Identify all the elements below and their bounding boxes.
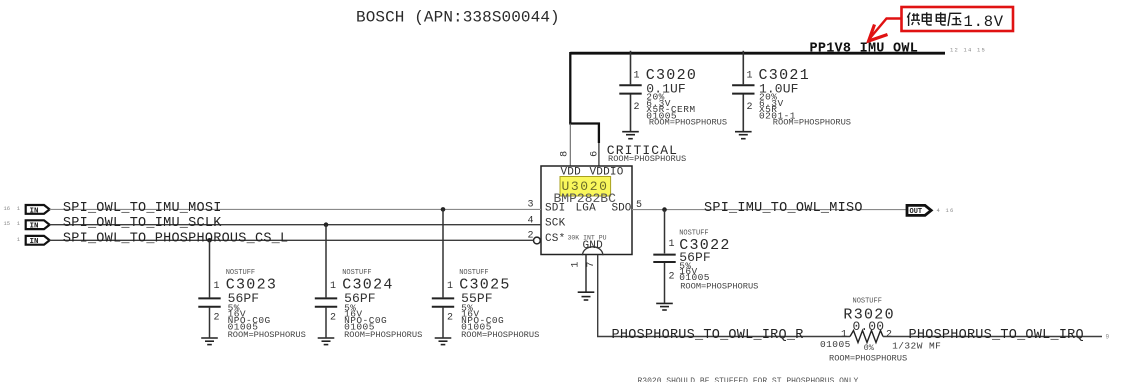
svg-text:ROOM=PHOSPHORUS: ROOM=PHOSPHORUS [461, 330, 539, 340]
capacitor C3022 [653, 210, 758, 303]
junction on SCLK [324, 222, 329, 227]
svg-text:LGA: LGA [576, 203, 597, 215]
CS bubble [534, 237, 541, 244]
wire PHOSPHORUS_TO_OWL_IRQ [883, 336, 1102, 338]
capacitor C3023 [198, 240, 306, 340]
wire VDD pin stub pin 8 [569, 124, 571, 167]
svg-text:PHOSPHORUS_TO_OWL_IRQ_R: PHOSPHORUS_TO_OWL_IRQ_R [612, 328, 804, 343]
ground under C3025 [435, 338, 452, 345]
capacitor C3024 [315, 225, 423, 340]
svg-text:1: 1 [634, 70, 640, 81]
svg-text:7: 7 [586, 262, 597, 268]
svg-text:PHOSPHORUS_TO_OWL_IRQ: PHOSPHORUS_TO_OWL_IRQ [909, 328, 1084, 343]
svg-text:6: 6 [590, 151, 601, 157]
svg-text:2: 2 [886, 329, 892, 340]
junction on MISO [662, 207, 667, 212]
capacitor C3020 [619, 51, 727, 131]
junction on MOSI [441, 207, 446, 212]
svg-text:1: 1 [330, 281, 336, 292]
svg-text:OUT: OUT [910, 208, 923, 216]
svg-text:ROOM=PHOSPHORUS: ROOM=PHOSPHORUS [344, 330, 422, 340]
svg-text:2: 2 [669, 271, 675, 282]
svg-text:01005: 01005 [820, 339, 851, 350]
svg-text:2: 2 [214, 312, 220, 323]
svg-text:9: 9 [1106, 334, 1110, 341]
red arrow to PP1V8_IMU_OWL [869, 19, 902, 42]
wire SPI_IMU_TO_OWL_MISO [632, 209, 908, 211]
svg-text:1.8V: 1.8V [964, 13, 1004, 31]
svg-text:2: 2 [634, 102, 640, 113]
wire elbow to VDDIO [569, 124, 599, 144]
capacitor C3025 [432, 209, 540, 340]
ground under IC pin1 [578, 292, 595, 300]
svg-text:SCK: SCK [545, 218, 566, 230]
svg-text:CS*: CS* [545, 233, 565, 245]
svg-text:VDD: VDD [561, 167, 582, 179]
ground under C3021 [735, 132, 752, 139]
svg-text:IN: IN [30, 207, 39, 215]
svg-text:ROOM=PHOSPHORUS: ROOM=PHOSPHORUS [829, 353, 907, 363]
wire SPI_OWL_TO_IMU_MOSI [50, 208, 541, 210]
svg-text:SDI: SDI [545, 203, 565, 215]
red callout box 供电电压1.8V [902, 7, 1014, 31]
wire IC pin1 to ground [585, 255, 587, 292]
svg-text:8: 8 [560, 151, 571, 157]
port IN 1 [4, 205, 50, 215]
svg-text:1: 1 [570, 262, 581, 268]
svg-text:2: 2 [447, 312, 453, 323]
op IC U3020 body [541, 166, 632, 255]
port OUT [907, 205, 955, 216]
svg-text:12 14 15: 12 14 15 [950, 47, 986, 54]
ground under C3023 [201, 338, 218, 345]
wire SPI_OWL_TO_IMU_SCLK [50, 224, 541, 226]
junction on CS_L [207, 238, 212, 243]
svg-text:ROOM=PHOSPHORUS: ROOM=PHOSPHORUS [680, 282, 758, 292]
svg-text:1: 1 [214, 281, 220, 292]
svg-text:1: 1 [447, 281, 453, 292]
svg-text:ROOM=PHOSPHORUS: ROOM=PHOSPHORUS [649, 118, 727, 128]
svg-text:ROOM=PHOSPHORUS: ROOM=PHOSPHORUS [773, 118, 851, 128]
resistor R3020 [820, 298, 941, 364]
svg-text:4 16: 4 16 [937, 207, 955, 214]
port IN 3 [17, 236, 50, 246]
svg-text:IN: IN [30, 238, 39, 246]
svg-text:2: 2 [747, 102, 753, 113]
wire SPI_OWL_TO_PHOSPHOROUS_CS_L [50, 239, 534, 241]
svg-text:16: 16 [4, 205, 11, 212]
svg-text:0.00: 0.00 [853, 319, 885, 334]
svg-text:ROOM=PHOSPHORUS: ROOM=PHOSPHORUS [608, 154, 686, 164]
svg-text:SPI_IMU_TO_OWL_MISO: SPI_IMU_TO_OWL_MISO [704, 201, 863, 216]
wire power rail PP1V8_IMU_OWL [570, 52, 945, 55]
wire IC pin7 to IRQ net [598, 255, 850, 337]
GND arc [583, 247, 603, 255]
wire VDDIO pin stub pin 6 [598, 143, 600, 166]
svg-text:NOSTUFF: NOSTUFF [853, 298, 882, 306]
svg-text:IN: IN [30, 223, 39, 231]
port IN 2 [4, 220, 50, 230]
ground under C3020 [622, 132, 639, 139]
wire rail left drop to VDD [569, 52, 571, 124]
svg-text:1: 1 [747, 70, 753, 81]
svg-text:SPI_OWL_TO_IMU_SCLK: SPI_OWL_TO_IMU_SCLK [63, 216, 222, 231]
ground under C3022 [656, 303, 673, 310]
svg-text:R3020 SHOULD BE STUFFED FOR ST: R3020 SHOULD BE STUFFED FOR ST PHOSPHORU… [638, 377, 859, 382]
svg-text:2: 2 [330, 312, 336, 323]
svg-text:SPI_OWL_TO_IMU_MOSI: SPI_OWL_TO_IMU_MOSI [63, 201, 222, 216]
svg-text:BOSCH (APN:338S00044): BOSCH (APN:338S00044) [356, 9, 560, 27]
svg-text:VDDIO: VDDIO [590, 167, 624, 179]
ground under C3024 [318, 338, 335, 345]
capacitor C3021 [732, 51, 851, 131]
svg-text:15: 15 [4, 220, 11, 227]
svg-text:SDO: SDO [612, 203, 632, 215]
svg-text:SPI_OWL_TO_PHOSPHOROUS_CS_L: SPI_OWL_TO_PHOSPHOROUS_CS_L [63, 232, 289, 247]
svg-text:1: 1 [669, 239, 675, 250]
svg-text:ROOM=PHOSPHORUS: ROOM=PHOSPHORUS [228, 330, 306, 340]
U3020 yellow highlight [560, 177, 611, 197]
svg-text:0%: 0% [864, 343, 875, 353]
